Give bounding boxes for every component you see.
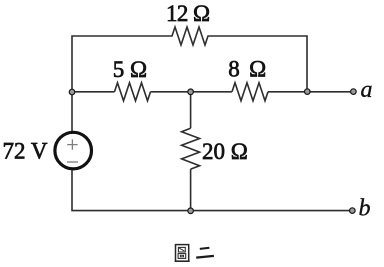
svg-text:b: b — [359, 196, 371, 222]
node right middle — [305, 89, 311, 95]
wire top loop with 12 ohm resistor — [72, 27, 307, 92]
voltage source V1 circle — [55, 132, 92, 169]
node center bottom — [188, 208, 194, 214]
wire 20ohm branch bottom — [190, 169, 192, 211]
terminal b circle — [350, 208, 356, 214]
wire source bottom lead + bottom rail to terminal b — [72, 170, 350, 210]
wire middle left — [72, 91, 115, 93]
resistor R 20ohm vertical — [182, 128, 200, 169]
svg-text:5 Ω: 5 Ω — [113, 57, 147, 82]
node center middle — [188, 89, 194, 95]
resistor R 5ohm — [115, 83, 151, 101]
minus sign inside source — [67, 161, 78, 163]
wire middle center — [151, 91, 233, 93]
plus sign inside source — [67, 139, 77, 149]
terminal a circle — [351, 89, 357, 95]
svg-text:20 Ω: 20 Ω — [202, 139, 248, 164]
svg-text:a: a — [361, 77, 373, 103]
wire 20ohm branch top — [190, 92, 192, 129]
caption glyph ER (two) — [196, 248, 214, 258]
svg-text:72 V: 72 V — [3, 138, 48, 163]
svg-text:8 Ω: 8 Ω — [228, 57, 268, 82]
wire source top lead — [71, 92, 73, 131]
svg-text:12 Ω: 12 Ω — [166, 1, 209, 26]
wire middle right to terminal a — [268, 91, 350, 93]
node left middle — [69, 89, 75, 95]
resistor R 8ohm — [232, 83, 268, 101]
caption glyph TU (figure) — [175, 245, 190, 262]
